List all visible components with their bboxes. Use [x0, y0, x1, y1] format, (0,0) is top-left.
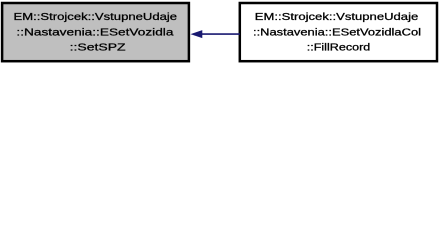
- svg-text:::FillRecord: ::FillRecord: [307, 43, 371, 54]
- edge arrow: FillRecord -> SetSPZ (midnightblue): [191, 31, 239, 38]
- svg-text:EM::Strojcek::VstupneUdaje: EM::Strojcek::VstupneUdaje: [14, 12, 178, 23]
- svg-text:EM::Strojcek::VstupneUdaje: EM::Strojcek::VstupneUdaje: [255, 12, 419, 23]
- svg-text:::Nastavenia::ESetVozidlaCol: ::Nastavenia::ESetVozidlaCol: [253, 27, 421, 38]
- node box: EM::Strojcek::VstupneUdaje::Nastavenia::ESetVozidla::SetSPZ (current node, grey fill): [2, 3, 189, 61]
- svg-text:::Nastavenia::ESetVozidla: ::Nastavenia::ESetVozidla: [16, 27, 174, 38]
- node box: EM::Strojcek::VstupneUdaje::Nastavenia::ESetVozidlaCol::FillRecord: [240, 3, 437, 61]
- svg-text:::SetSPZ: ::SetSPZ: [70, 43, 126, 54]
